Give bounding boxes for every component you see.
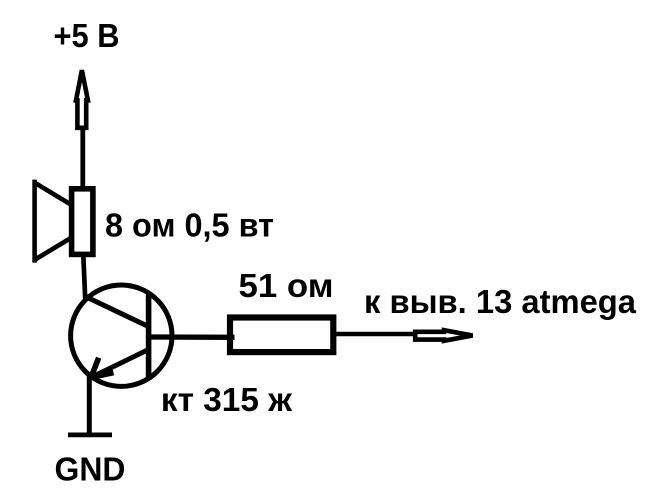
output arrow to pin 13 atmega (hollow right arrow) xyxy=(415,330,472,341)
power arrow symbol (+5 V, hollow up arrow) xyxy=(76,70,88,128)
ground symbol xyxy=(68,432,112,437)
svg-text:8 ом 0,5 вт: 8 ом 0,5 вт xyxy=(105,207,274,244)
transistor Q1 collector stroke xyxy=(85,296,150,327)
transistor Q1 base bar xyxy=(146,294,152,381)
svg-text:к выв. 13 atmega: к выв. 13 atmega xyxy=(364,284,636,321)
transistor Q1 emitter arrowhead xyxy=(91,358,99,378)
svg-text:+5 В: +5 В xyxy=(54,18,120,55)
svg-text:51 ом: 51 ом xyxy=(239,268,334,305)
wire: base to resistor R1 xyxy=(149,334,235,340)
wire: emitter to ground xyxy=(87,374,92,437)
svg-text:кт 315 ж: кт 315 ж xyxy=(161,382,293,419)
svg-text:GND: GND xyxy=(55,452,126,489)
transistor Q1 body (circle) xyxy=(71,285,172,386)
wire: +5V arrow to speaker xyxy=(80,129,85,188)
speaker BA1 coil (rectangle) xyxy=(72,189,93,255)
speaker BA1 cone (trapezoid) xyxy=(32,180,37,263)
transistor Q1 emitter stroke xyxy=(91,350,149,378)
wire: resistor R1 to output arrow xyxy=(336,332,416,337)
resistor R1 (rectangle) xyxy=(230,318,333,353)
wire: speaker to transistor collector xyxy=(83,255,85,299)
